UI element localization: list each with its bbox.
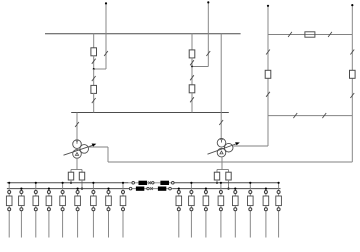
wire: Q1 to node J1 (93, 55, 95, 69)
breaker Q7 (ring top tie) (305, 32, 315, 37)
wire: T1 secondary to splitter (71, 158, 82, 169)
line riser L3 (left leg of ring) (267, 5, 269, 146)
breaker Q6 on L4 (350, 70, 356, 78)
disconnector QS4 (92, 98, 96, 103)
breaker Q3 (189, 50, 195, 58)
bus W3 (section I, upper LV bus left) (7, 182, 128, 184)
breaker Q2 (91, 85, 97, 93)
breaker Q1 (91, 48, 97, 56)
breaker Q10 (T2 to section III) (214, 172, 219, 180)
disconnector QS6 (190, 60, 194, 65)
feeder F17 (276, 182, 282, 238)
feeder F1 (6, 182, 12, 238)
node: Q8 on section I bus (70, 182, 72, 184)
wire: Q11 to section IV bus (228, 180, 230, 189)
breaker Q9 (T1 to section II) (79, 172, 84, 180)
bus W4 (section II, lower LV bus left) (7, 188, 129, 190)
current transformer TA1 (148, 181, 154, 184)
breaker Q13 (upper bus tie, closed) (160, 181, 169, 185)
breaker Q11 (T2 to section IV) (226, 172, 231, 180)
disconnector QS16 (328, 32, 332, 37)
current transformer TA2 (147, 187, 153, 190)
wire: ring top tie (268, 34, 352, 36)
wire: Q2 to bus W2 (93, 93, 95, 113)
node: Q9 on section II bus (81, 188, 83, 190)
disconnector QS5 on line L2 (206, 51, 210, 56)
line riser L4 (right leg of ring) (351, 4, 353, 162)
feeder F3 (33, 182, 39, 238)
incoming line L1 (105, 2, 107, 69)
feeder F2 (19, 188, 25, 238)
bus W5 (section III, upper LV bus right) (175, 182, 280, 184)
node J1 (93, 68, 95, 70)
disconnector QS7 (190, 75, 194, 80)
disconnector QS3 (92, 76, 96, 81)
feeder F10 (176, 188, 182, 238)
wire: bus W1 to breaker Q1 (93, 34, 95, 48)
node: Q11 on section IV bus (227, 188, 229, 190)
feeder F8 (106, 188, 112, 238)
incoming line L2 (207, 1, 209, 66)
wire: Q8 to section I bus (70, 180, 72, 183)
drawout contact (upper tie, right) (172, 182, 175, 185)
disconnector QS1 on line L1 (104, 51, 108, 56)
wire: L1 elbow to node J1 (94, 68, 106, 70)
wire: Q10 to section III bus (216, 180, 218, 183)
wire: L2 elbow to node J2 (192, 66, 208, 68)
drawout contact (lower tie, left) (129, 187, 132, 190)
wire: Q4 to bus W2 (191, 92, 193, 112)
bus W2 (lower 110kV bus) (71, 112, 229, 114)
wire: bus W1 to breaker Q3 (191, 34, 193, 50)
wire: T2 secondary to splitter (217, 157, 229, 170)
bus W1 (upper 110kV bus) (45, 33, 241, 35)
wire: splitter right leg (81, 170, 83, 173)
wire: T1 tertiary winding to far riser (89, 147, 353, 162)
transformer T1 (three-winding, on-load tap changer) (64, 140, 97, 158)
drawout contact (upper tie, left) (132, 182, 135, 185)
disconnector QS18 (322, 113, 326, 118)
feeder F9 (120, 182, 126, 238)
wire: node J2 to breaker Q4 (191, 67, 193, 85)
wire: ring bottom tie (268, 115, 352, 117)
wire: lower bus tie link (129, 188, 173, 190)
breaker Q4 (189, 85, 195, 93)
breaker Q8 (T1 to section I) (68, 172, 73, 180)
wire: splitter left leg (T2) (216, 170, 218, 173)
feeder F14 (233, 188, 239, 238)
feeder F15 (248, 182, 254, 238)
disconnector QS14 on L4 (350, 93, 354, 98)
wire: bus W2 to transformer T1 (76, 113, 78, 140)
wire: bus W1 to transformer T2 (bus tie riser) (220, 34, 222, 139)
wire: node J1 to breaker Q2 (93, 69, 95, 85)
feeder F6 (75, 188, 81, 238)
feeder F5 (60, 182, 66, 238)
disconnector QS13 on L4 (350, 50, 354, 55)
feeder F13 (218, 182, 224, 238)
disconnector QS17 (293, 113, 297, 118)
disconnector QS12 on L3 (266, 92, 270, 97)
drawout contact (lower tie, right) (169, 187, 172, 190)
wire: Q9 to section II bus (81, 180, 83, 189)
bus W6 (section IV, lower LV bus right) (173, 188, 281, 190)
feeder F4 (46, 188, 52, 238)
breaker Q15 (lower bus tie, closed) (158, 187, 166, 191)
node: Q10 on section III bus (216, 182, 218, 184)
feeder F7 (91, 182, 97, 238)
disconnector QS2 (92, 59, 96, 64)
feeder F11 (189, 182, 195, 238)
wire: upper bus tie link (128, 182, 174, 184)
transformer T2 (three-winding, on-load tap changer) (208, 138, 240, 157)
disconnector QS8 (190, 97, 194, 102)
breaker Q12 (upper bus tie, closed) (139, 181, 148, 185)
wire: splitter left leg (70, 170, 72, 173)
breaker Q14 (lower bus tie, closed) (136, 187, 144, 191)
disconnector QS10 (75, 122, 79, 127)
wire: T2 tertiary winding to near riser (234, 145, 269, 147)
feeder F12 (203, 188, 209, 238)
breaker Q5 on L3 (265, 70, 271, 78)
feeder F16 (263, 188, 269, 238)
disconnector QS15 (288, 32, 292, 37)
disconnector QS9 (219, 120, 223, 125)
node J2 (191, 66, 193, 68)
disconnector QS11 on L3 (266, 50, 270, 55)
wire: splitter right leg (T2) (228, 170, 230, 173)
wire: Q3 to node J2 (191, 58, 193, 67)
